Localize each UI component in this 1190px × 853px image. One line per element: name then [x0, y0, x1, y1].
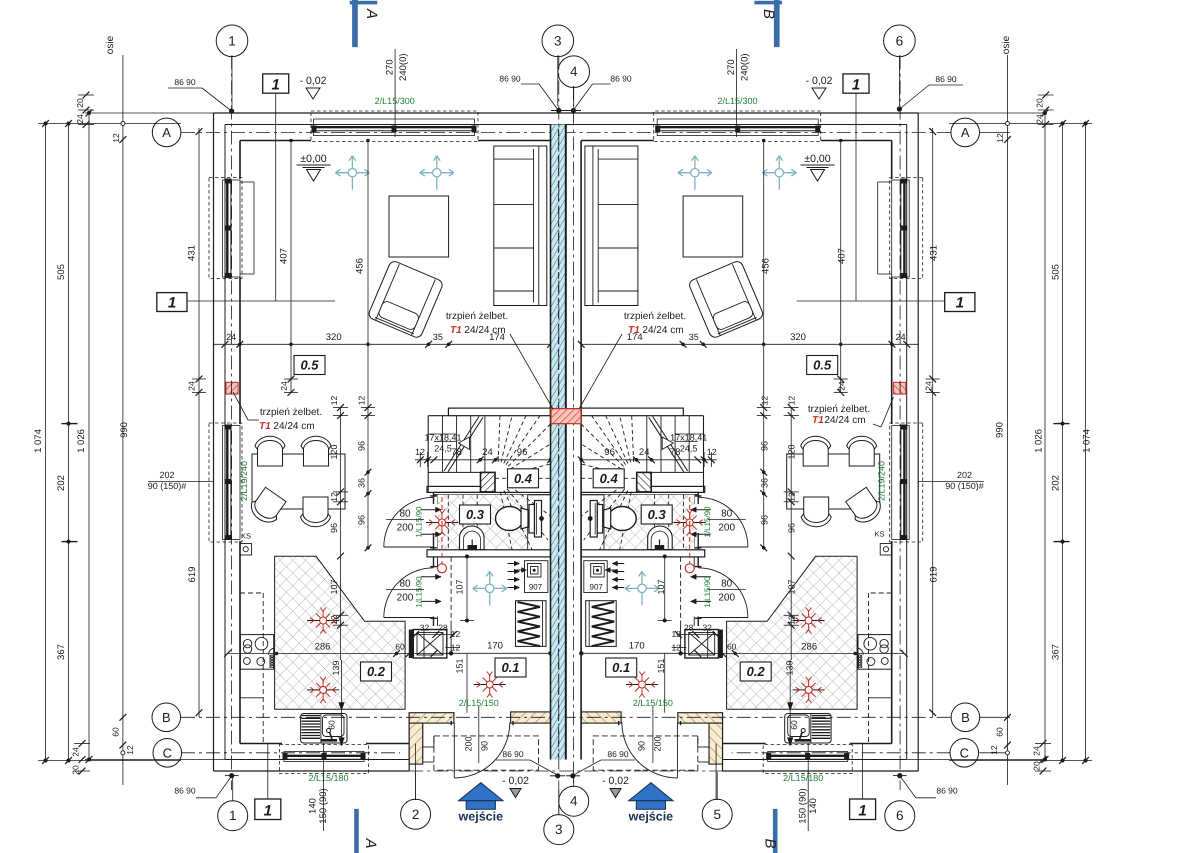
svg-text:120: 120	[787, 444, 797, 459]
svg-text:286: 286	[315, 642, 331, 653]
svg-text:2: 2	[412, 807, 420, 822]
svg-text:1: 1	[858, 802, 866, 819]
svg-text:80: 80	[399, 509, 411, 520]
svg-text:2/L15/180: 2/L15/180	[308, 773, 348, 783]
dim row kitchen	[228, 653, 449, 655]
svg-text:60: 60	[327, 720, 337, 730]
0.4 dashed leaders	[495, 477, 508, 479]
svg-text:32: 32	[420, 623, 430, 633]
kitchen counter dashes	[262, 593, 264, 744]
svg-text:86 90: 86 90	[610, 74, 632, 84]
chimney dims	[413, 634, 455, 636]
section mark A bottom	[354, 809, 359, 853]
svg-text:140: 140	[808, 798, 819, 814]
svg-text:- 0,02: - 0,02	[806, 75, 833, 87]
svg-text:170: 170	[629, 641, 645, 652]
svg-text:12: 12	[329, 615, 339, 625]
svg-text:0.2: 0.2	[367, 664, 386, 679]
axis C dash	[181, 752, 400, 754]
porch axis stub	[415, 744, 417, 801]
grid circles top	[216, 25, 248, 57]
svg-text:139: 139	[785, 660, 795, 675]
dim verticals living	[198, 128, 200, 392]
svg-text:107: 107	[656, 579, 666, 594]
svg-text:17x18,41: 17x18,41	[424, 433, 461, 443]
svg-text:90 (150)#: 90 (150)#	[945, 481, 984, 491]
svg-text:1: 1	[956, 295, 964, 312]
dim col hall 151	[466, 653, 468, 712]
cooktop + sink left	[240, 635, 273, 670]
axis B dash	[181, 716, 566, 718]
grid circles bottom	[218, 801, 248, 831]
svg-text:140: 140	[308, 798, 319, 814]
svg-text:86 90: 86 90	[174, 77, 196, 87]
svg-text:1 074: 1 074	[1082, 429, 1093, 453]
svg-text:107: 107	[787, 579, 797, 594]
svg-text:1: 1	[852, 77, 860, 94]
svg-text:28: 28	[684, 623, 694, 633]
svg-text:174: 174	[489, 332, 505, 343]
svg-text:24: 24	[279, 381, 289, 391]
square marker 1 bottom-right	[850, 799, 876, 820]
svg-text:12: 12	[415, 447, 425, 457]
svg-text:139: 139	[331, 660, 341, 675]
svg-text:12: 12	[451, 629, 461, 639]
section mark A top	[352, 0, 358, 47]
svg-text:20: 20	[75, 98, 85, 108]
square marker 1 left-wall	[157, 293, 187, 312]
svg-text:505: 505	[56, 264, 67, 280]
svg-text:T1: T1	[259, 421, 271, 432]
svg-text:12: 12	[759, 396, 769, 406]
square marker 1 right-wall	[945, 293, 975, 312]
KS box	[240, 544, 252, 556]
left dim lines	[45, 124, 47, 762]
svg-text:90: 90	[479, 741, 489, 751]
svg-text:3: 3	[555, 822, 563, 837]
svg-text:12: 12	[787, 615, 797, 625]
svg-text:20: 20	[71, 765, 81, 775]
lamp kitchen 1	[307, 608, 339, 634]
svg-text:24: 24	[226, 332, 236, 342]
svg-text:24: 24	[1032, 746, 1042, 756]
stair pier column	[481, 472, 496, 492]
porch door width line	[478, 706, 480, 763]
hvac symbol hall	[473, 571, 507, 605]
wardrobe	[516, 601, 547, 647]
svg-text:2/L15/300: 2/L15/300	[375, 96, 415, 106]
axis 3 line	[558, 56, 560, 816]
svg-text:320: 320	[790, 332, 806, 343]
svg-text:907: 907	[529, 583, 543, 592]
svg-text:36: 36	[759, 478, 769, 488]
svg-text:C: C	[960, 745, 969, 760]
hvac symbol living 2	[420, 156, 454, 190]
toilet	[496, 507, 524, 531]
svg-text:trzpień żelbet.: trzpień żelbet.	[446, 311, 508, 322]
svg-text:1/L15/90: 1/L15/90	[415, 576, 424, 608]
right dim lines	[1085, 124, 1087, 762]
svg-text:96: 96	[356, 515, 366, 525]
svg-text:0.3: 0.3	[466, 507, 485, 522]
svg-text:B: B	[762, 838, 779, 848]
svg-text:80: 80	[399, 579, 411, 590]
svg-text:200: 200	[652, 736, 662, 751]
wall face extension lines	[85, 112, 214, 114]
svg-text:200: 200	[397, 523, 414, 534]
coffee table	[389, 196, 449, 257]
svg-text:12: 12	[671, 629, 681, 639]
svg-text:T1: T1	[450, 325, 462, 336]
svg-text:A: A	[362, 837, 379, 848]
svg-text:0.4: 0.4	[514, 471, 533, 486]
window left wall lower (dining)	[209, 423, 242, 542]
svg-text:96: 96	[517, 447, 528, 458]
axis 4 line	[572, 87, 574, 788]
winders over bathroom	[500, 492, 512, 550]
svg-text:±0,00: ±0,00	[804, 153, 830, 165]
svg-text:24: 24	[482, 447, 493, 458]
svg-text:24: 24	[896, 332, 906, 342]
svg-text:96: 96	[604, 447, 615, 458]
svg-text:0.5: 0.5	[300, 358, 319, 373]
svg-text:±0,00: ±0,00	[300, 153, 326, 165]
svg-text:24: 24	[187, 381, 197, 391]
porch walls (tan)	[409, 713, 454, 723]
right unit geometry (mirror)	[566, 56, 951, 801]
svg-text:12: 12	[451, 643, 461, 653]
svg-text:150 (90): 150 (90)	[798, 788, 809, 823]
svg-text:0.2: 0.2	[747, 664, 766, 679]
wall: left exterior	[213, 113, 215, 771]
svg-text:2/L15/180: 2/L15/180	[783, 773, 823, 783]
chairs	[255, 436, 285, 466]
svg-text:24,5: 24,5	[434, 444, 452, 454]
svg-text:osie: osie	[105, 35, 116, 54]
svg-text:12: 12	[671, 643, 681, 653]
svg-text:6: 6	[896, 808, 904, 823]
bathroom bottom / hall top wall	[427, 550, 551, 557]
square marker 1 top-right	[843, 74, 869, 93]
svg-text:431: 431	[187, 245, 198, 261]
armchair	[367, 260, 444, 339]
section mark B top	[774, 0, 780, 47]
washbasin	[460, 526, 485, 550]
svg-text:86 90: 86 90	[607, 749, 629, 759]
svg-text:2/L15/150: 2/L15/150	[633, 698, 673, 708]
svg-text:367: 367	[56, 644, 67, 660]
svg-text:1: 1	[264, 802, 272, 819]
svg-text:4: 4	[570, 794, 578, 809]
axis A horizontal	[181, 131, 566, 133]
window left wall upper (living)	[209, 178, 242, 279]
hall dashed guide	[450, 557, 452, 621]
svg-text:86 90: 86 90	[174, 785, 196, 795]
svg-text:24: 24	[71, 747, 81, 757]
svg-text:200: 200	[718, 523, 735, 534]
svg-text:3: 3	[554, 33, 562, 48]
svg-text:osie: osie	[1001, 35, 1012, 54]
dim col hall 107	[466, 556, 468, 620]
porch slab	[434, 736, 539, 770]
svg-text:12: 12	[111, 133, 121, 143]
chimney block	[409, 630, 414, 659]
svg-text:24: 24	[75, 114, 85, 124]
section mark B bottom	[773, 809, 778, 853]
svg-text:270: 270	[385, 59, 396, 75]
dining table	[252, 454, 345, 509]
svg-text:200: 200	[463, 736, 473, 751]
svg-text:96: 96	[759, 515, 769, 525]
square marker 1 top-left	[263, 74, 289, 93]
svg-text:456: 456	[761, 258, 772, 274]
bathroom walls	[427, 486, 481, 492]
svg-text:B: B	[961, 710, 970, 725]
svg-text:12: 12	[787, 492, 797, 502]
party wall anchor red center	[551, 409, 581, 424]
svg-text:6: 6	[896, 33, 904, 48]
svg-text:96: 96	[356, 441, 366, 451]
svg-text:20: 20	[1035, 98, 1045, 108]
svg-text:24: 24	[1035, 114, 1045, 124]
wall: bottom exterior (kitchen part)	[214, 770, 410, 772]
svg-text:0.1: 0.1	[501, 660, 519, 675]
svg-text:2/L19/240: 2/L19/240	[877, 461, 887, 501]
electric box 907	[525, 561, 548, 593]
hvac symbol living 1	[335, 156, 369, 190]
sink unit bottom	[301, 714, 347, 744]
svg-text:12: 12	[995, 133, 1005, 143]
svg-text:trzpień żelbet.: trzpień żelbet.	[624, 311, 686, 322]
svg-text:174: 174	[627, 332, 643, 343]
svg-text:86 90: 86 90	[502, 749, 524, 759]
dim row living	[214, 343, 551, 345]
wall/beam over stairs	[448, 408, 550, 416]
svg-text:17x18,41: 17x18,41	[670, 433, 707, 443]
svg-text:0.5: 0.5	[813, 358, 832, 373]
wall: exterior outer face	[214, 112, 566, 114]
svg-text:170: 170	[487, 641, 503, 652]
square marker 1 bottom-left	[255, 799, 281, 820]
svg-text:1 074: 1 074	[33, 429, 44, 453]
dim col dining 1	[340, 408, 342, 661]
svg-text:456: 456	[355, 258, 366, 274]
svg-text:86 90: 86 90	[936, 785, 958, 795]
svg-text:60: 60	[395, 642, 405, 652]
grid circles left	[152, 118, 181, 147]
svg-text:107: 107	[455, 579, 465, 594]
svg-text:35: 35	[433, 332, 443, 342]
svg-text:202: 202	[159, 470, 174, 480]
hall door	[384, 568, 434, 618]
bathroom door	[384, 497, 434, 547]
plumbing riser dashed	[441, 497, 443, 564]
svg-text:60: 60	[727, 642, 737, 652]
stair dim leader	[428, 433, 457, 435]
room labels	[294, 356, 325, 375]
stairs	[427, 416, 429, 492]
svg-text:990: 990	[995, 422, 1006, 438]
svg-text:5: 5	[713, 807, 721, 822]
svg-text:320: 320	[326, 332, 342, 343]
svg-text:B: B	[760, 9, 777, 19]
hall left wall w/ door opening	[433, 557, 435, 568]
svg-text:505: 505	[1051, 264, 1062, 280]
svg-text:1/L15/90: 1/L15/90	[703, 506, 712, 538]
svg-text:80: 80	[721, 579, 733, 590]
svg-text:2/L15/150: 2/L15/150	[459, 698, 499, 708]
svg-text:200: 200	[397, 593, 414, 604]
svg-text:407: 407	[837, 248, 848, 264]
svg-text:28: 28	[438, 623, 448, 633]
grid circles right	[951, 118, 980, 147]
svg-text:1: 1	[168, 295, 176, 312]
svg-text:1: 1	[229, 808, 237, 823]
svg-text:60: 60	[995, 727, 1005, 737]
svg-text:B: B	[162, 710, 171, 725]
bottom axis node dots	[555, 773, 560, 778]
svg-text:286: 286	[801, 642, 817, 653]
svg-text:20: 20	[1032, 761, 1042, 771]
svg-text:202: 202	[56, 475, 67, 491]
svg-text:151: 151	[455, 658, 465, 673]
svg-text:24: 24	[837, 381, 847, 391]
svg-text:78: 78	[451, 447, 462, 458]
sofa	[494, 146, 547, 306]
svg-text:24/24 cm: 24/24 cm	[824, 415, 865, 426]
left unit geometry	[181, 56, 566, 801]
svg-text:24: 24	[639, 447, 650, 458]
svg-text:trzpień żelbet.: trzpień żelbet.	[260, 407, 322, 418]
svg-text:KS: KS	[241, 532, 251, 541]
svg-text:wejście: wejście	[458, 810, 504, 824]
svg-text:0.1: 0.1	[612, 660, 630, 675]
svg-text:200: 200	[718, 593, 735, 604]
svg-text:150 (90): 150 (90)	[318, 788, 329, 823]
dim row stairs	[415, 459, 551, 461]
door arrows bathroom/hall	[421, 509, 441, 511]
kitchen floor tiles	[275, 556, 406, 709]
svg-text:1/L15/90: 1/L15/90	[415, 506, 424, 538]
svg-text:12: 12	[707, 447, 717, 457]
top 270/240 labels	[394, 49, 396, 137]
bathroom floor tiles	[438, 495, 528, 550]
stair up-line	[444, 417, 479, 472]
svg-text:C: C	[163, 745, 172, 760]
bottom 140/150(90) labels	[323, 744, 325, 832]
svg-text:907: 907	[590, 583, 604, 592]
svg-text:- 0,02: - 0,02	[300, 75, 327, 87]
svg-text:0.4: 0.4	[600, 471, 619, 486]
svg-text:24/24 cm: 24/24 cm	[273, 421, 314, 432]
svg-text:619: 619	[187, 567, 198, 583]
small arrows hall	[508, 563, 520, 565]
svg-text:- 0,02: - 0,02	[602, 775, 629, 787]
svg-text:619: 619	[929, 567, 940, 583]
svg-text:202: 202	[1051, 475, 1062, 491]
svg-text:78: 78	[670, 447, 681, 458]
svg-text:24: 24	[924, 381, 934, 391]
svg-text:A: A	[363, 8, 380, 19]
svg-text:12: 12	[989, 745, 999, 755]
svg-text:60: 60	[111, 727, 121, 737]
svg-text:107: 107	[329, 579, 339, 594]
svg-text:A: A	[961, 125, 970, 140]
svg-text:12: 12	[329, 396, 339, 406]
svg-text:86 90: 86 90	[499, 74, 521, 84]
svg-text:367: 367	[1051, 644, 1062, 660]
svg-text:T1: T1	[812, 415, 824, 426]
lamp bathroom	[426, 510, 458, 536]
svg-text:1 026: 1 026	[1034, 429, 1045, 453]
svg-text:270: 270	[726, 59, 737, 75]
svg-text:35: 35	[689, 332, 699, 342]
svg-text:990: 990	[119, 422, 130, 438]
svg-text:60: 60	[789, 720, 799, 730]
svg-text:151: 151	[656, 658, 666, 673]
wejscie arrows	[459, 783, 503, 801]
porch step edge	[423, 761, 434, 763]
window bottom (kitchen)	[280, 745, 369, 774]
svg-text:KS: KS	[874, 530, 884, 539]
svg-text:120: 120	[329, 444, 339, 459]
svg-text:24,5: 24,5	[680, 444, 698, 454]
svg-text:96: 96	[329, 523, 339, 533]
window top (living room)	[311, 111, 478, 142]
svg-text:90 (150)#: 90 (150)#	[148, 481, 187, 491]
party wall left leaf (blue hatch)	[551, 125, 566, 760]
svg-text:24/24 cm: 24/24 cm	[642, 325, 683, 336]
svg-text:- 0,02: - 0,02	[502, 775, 529, 787]
svg-text:2/L15/300: 2/L15/300	[717, 96, 757, 106]
svg-text:12: 12	[787, 396, 797, 406]
svg-text:32: 32	[702, 623, 712, 633]
top axis node dots	[556, 108, 561, 113]
svg-text:431: 431	[929, 245, 940, 261]
svg-text:12: 12	[125, 745, 135, 755]
svg-text:240(0): 240(0)	[740, 53, 751, 80]
svg-text:4: 4	[570, 64, 578, 79]
svg-text:12: 12	[356, 396, 366, 406]
svg-text:1: 1	[228, 33, 236, 48]
svg-text:A: A	[162, 125, 171, 140]
red wall anchor left	[226, 382, 238, 394]
axis 1 vertical	[231, 56, 233, 791]
svg-text:90: 90	[636, 741, 646, 751]
svg-text:2/L19/240: 2/L19/240	[239, 461, 249, 501]
svg-text:12: 12	[329, 492, 339, 502]
svg-text:1 026: 1 026	[76, 429, 87, 453]
lamp kitchen 2	[307, 677, 339, 703]
party wall right leaf	[580, 141, 582, 760]
svg-text:1: 1	[272, 77, 280, 94]
svg-text:96: 96	[787, 523, 797, 533]
entry door	[453, 723, 455, 778]
lamp hall	[474, 672, 506, 698]
svg-text:trzpień żelbet.: trzpień żelbet.	[808, 404, 870, 415]
svg-text:240(0): 240(0)	[398, 53, 409, 80]
svg-text:36: 36	[356, 478, 366, 488]
svg-text:1/L15/90: 1/L15/90	[703, 576, 712, 608]
svg-text:80: 80	[721, 509, 733, 520]
svg-text:202: 202	[957, 470, 972, 480]
dim col dining 2	[367, 141, 369, 548]
svg-text:96: 96	[759, 441, 769, 451]
svg-text:86 90: 86 90	[935, 74, 957, 84]
svg-text:0.3: 0.3	[648, 507, 667, 522]
svg-text:407: 407	[279, 248, 290, 264]
svg-text:wejście: wejście	[628, 810, 674, 824]
